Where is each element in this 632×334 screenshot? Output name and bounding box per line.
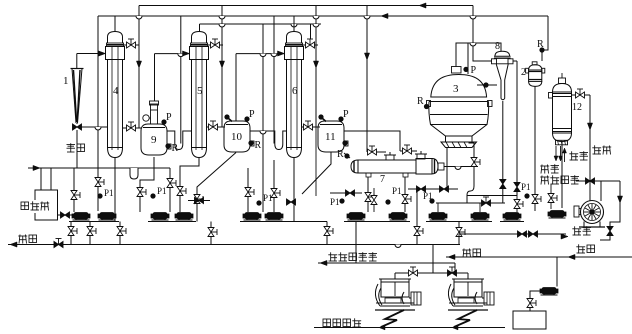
drop from cluster 4 to discharge line — [416, 189, 418, 245]
valve on vapor line into exchanger 7 — [367, 151, 386, 153]
svg-text:3: 3 — [453, 83, 459, 95]
text 进水 (bottom) — [574, 226, 576, 235]
vent valve at top of column 4 — [124, 44, 140, 46]
valve above seal tank — [529, 296, 531, 311]
valve from tank to pump 1 — [58, 214, 73, 216]
svg-text:R: R — [255, 140, 262, 151]
vapor loop from header 2 into column 6 — [273, 16, 275, 144]
pump 5A — [431, 213, 445, 220]
riser from units to product line — [432, 245, 434, 274]
valve on liquor line into exchanger 7 — [400, 150, 417, 152]
branch into vessel 3 dome — [467, 43, 469, 74]
steam feed line into column 4 — [77, 53, 105, 55]
vapor riser from column 5 to top header — [221, 6, 223, 128]
svg-text:2: 2 — [521, 67, 526, 78]
gauge P1 of cluster 6 — [525, 194, 529, 198]
pump 3A — [245, 213, 259, 220]
valve on unit B line — [448, 270, 453, 276]
svg-text:10: 10 — [231, 131, 243, 143]
product pump unit A volute — [375, 284, 380, 306]
product line with dark valves under vessel 3 — [408, 188, 458, 190]
svg-text:P1: P1 — [104, 188, 114, 198]
gauge P1 of cluster 1 — [98, 194, 102, 198]
vacuum pump suction flange — [574, 206, 579, 217]
cluster 6 baseline — [500, 221, 524, 223]
valve from separator 11 drain — [330, 192, 362, 194]
cyclone outlet to riser — [513, 60, 517, 62]
top vapor header line 2 — [98, 15, 548, 17]
preheater 2 side lugs — [526, 68, 529, 73]
crossover valve cluster 2 — [188, 200, 210, 202]
diagonal drain from separator 11 — [302, 153, 331, 195]
drop from cluster 5 to discharge line — [458, 222, 460, 245]
steam line below valve — [76, 130, 78, 168]
rotameter top riser — [76, 54, 78, 69]
exchanger 7 top nozzle 2 — [417, 154, 425, 159]
vapor riser from column 4 to top header — [138, 6, 140, 129]
vacuum pump base — [583, 222, 585, 228]
cyclone tail line with valve — [502, 101, 504, 203]
steam branch line to column 4 — [81, 126, 108, 128]
vent valve at top of column 5 — [208, 44, 224, 46]
seal pump riser to product line — [556, 257, 558, 287]
drop from header 3 to pump cluster 3 — [262, 24, 264, 212]
top vapor header line 1 — [139, 5, 473, 7]
svg-text:P1: P1 — [263, 193, 273, 203]
top vapor header line 3 — [200, 23, 322, 25]
svg-text:5: 5 — [197, 85, 203, 97]
svg-text:P: P — [166, 112, 172, 123]
condensate outlet arrows under condenser 12 — [555, 146, 557, 158]
pressure tap P on vessel 10 — [245, 117, 249, 121]
loop seal on cleaning line — [130, 168, 138, 179]
suction riser of unit B — [467, 273, 469, 279]
cyclone overhead line into concentrator 3 — [456, 43, 501, 67]
exchanger 7 legs — [366, 173, 371, 177]
product pump unit B volute — [448, 284, 453, 306]
pump 1B — [100, 213, 114, 220]
gauge P1a of cluster 4 — [340, 199, 344, 203]
svg-text:P1: P1 — [392, 186, 402, 196]
cooling water inlet arrow — [564, 150, 566, 162]
pump 2B — [177, 213, 191, 220]
cyclone side lugs — [492, 59, 497, 64]
svg-text:P1: P1 — [521, 182, 531, 192]
preheater 2 drain — [534, 86, 536, 211]
text 进水 (top) — [571, 151, 573, 160]
vacuum pump (water-ring) — [581, 201, 604, 224]
heater column 5 shell — [192, 32, 207, 44]
drop from cluster 2 to discharge line — [210, 222, 212, 245]
heater column 6 shell — [287, 32, 302, 44]
text 排料 — [18, 235, 27, 237]
pump 6B (condensate) — [550, 211, 564, 218]
top nozzle on vessel 9 — [151, 104, 158, 124]
pump cluster baseline — [426, 221, 492, 223]
liquor transfer with loop seal between 9 and column 5 — [167, 131, 192, 150]
product pump unit B motor — [484, 292, 494, 305]
line from column 4 to separator 9 with valve — [123, 127, 142, 129]
condensate line to pool 至冷凝水池 — [318, 262, 455, 264]
discharge zigzag arrow of unit B — [454, 310, 477, 327]
text 清洗液 — [19, 200, 53, 213]
vapor line from top header into cyclone 8 — [473, 6, 492, 62]
product pump unit A tank — [381, 279, 409, 297]
svg-text:P: P — [471, 65, 477, 76]
pressure tap P on vessel 11 — [339, 117, 343, 121]
vessel 3 right nozzle — [488, 101, 493, 107]
vacuum pump discharge loop — [600, 181, 620, 240]
product pump unit B tank — [454, 279, 482, 297]
line from header into preheater 2 — [542, 16, 548, 61]
valve on discharge line — [54, 242, 59, 248]
column 5 bottom outlet riser — [180, 158, 199, 213]
pump 1A — [74, 213, 88, 220]
liquor transfer line from 11 to exchanger 7 — [344, 131, 400, 151]
concentrator vessel 3 shell — [431, 75, 487, 98]
svg-text:P: P — [343, 109, 349, 120]
level tap R on vessel 11 — [344, 141, 348, 146]
svg-text:P: P — [249, 109, 255, 120]
condensate drain line to water line — [576, 180, 620, 182]
pump cluster baseline — [344, 221, 410, 223]
steam rotameter 1 (tapered tube) — [71, 68, 84, 70]
preheater 2 shell — [529, 65, 542, 70]
gauge P1 of cluster 2 — [151, 194, 155, 198]
riser into pump 6A — [516, 196, 518, 213]
condenser 12 side lug — [549, 93, 553, 99]
suction risers cluster 3 — [247, 168, 249, 212]
water line with twin valves — [459, 233, 566, 235]
feed arrow into column 5 — [183, 51, 190, 56]
preheater 2 top nozzle — [532, 62, 537, 65]
svg-text:1: 1 — [63, 75, 69, 87]
column 6 dome riser to header 2 — [293, 16, 295, 32]
main discharge line 排料 — [8, 244, 460, 246]
text 进料 — [578, 244, 580, 253]
pump cluster baseline — [148, 221, 196, 223]
svg-text:R: R — [337, 149, 344, 160]
vapor riser from column 6 to top header — [315, 6, 317, 128]
svg-text:P1: P1 — [423, 191, 433, 201]
condenser 12 shell — [553, 84, 572, 93]
level tap R on vessel 10 — [250, 141, 254, 146]
top fitting on vessel 10 — [228, 118, 232, 122]
text 真空 — [594, 145, 596, 154]
vessel 3 top cap — [452, 67, 462, 74]
suction line to pump 6A — [467, 195, 517, 197]
separator vessel 10 shell — [224, 121, 250, 152]
text 排水 — [540, 165, 549, 167]
line from column 5 to separator 10 with valve — [207, 126, 226, 128]
product pump unit A motor — [411, 292, 421, 305]
vacuum valve beside condenser 12 — [572, 94, 591, 96]
cyclone cone and dip tube — [496, 64, 501, 80]
gauge P1b of cluster 4 — [386, 200, 390, 204]
column 5 dome riser to header 3 — [199, 24, 201, 32]
exchanger 7 top nozzle 1 — [386, 155, 394, 160]
vapor line from top header down to heat exchanger 7 — [366, 6, 368, 153]
condenser 12 bottom outlet box — [556, 140, 568, 145]
liquor transfer with loop seal between 10 and column 6 — [250, 131, 287, 150]
condenser 12 drain line — [561, 142, 563, 209]
pump 5B — [473, 213, 487, 220]
vapor line from separator 9 nozzle up to column 5 feed — [154, 54, 156, 101]
heat exchanger 7 shell — [358, 160, 416, 173]
svg-text:11: 11 — [325, 131, 336, 143]
suction risers cluster 2 — [169, 168, 171, 212]
long vertical x=316 to cluster 4 zone — [315, 127, 317, 196]
discharge zigzag arrow of unit A — [381, 310, 404, 327]
vent valve at top of column 6 — [303, 44, 319, 46]
valve on condensate drop x=98 — [95, 178, 101, 183]
svg-text:6: 6 — [292, 85, 298, 97]
transfer line into column 6 — [236, 53, 284, 55]
heater column 4 shell — [108, 32, 123, 44]
line from column 6 to separator 11 with valve — [302, 126, 321, 128]
drops from cluster 1 to discharge line — [70, 222, 72, 245]
separator vessel 11 shell — [318, 121, 344, 152]
vapor line from vessel 3 to cyclone tail zone — [477, 84, 497, 86]
vessel 3 left drain — [446, 148, 448, 190]
text 包装入库 — [323, 319, 331, 327]
gauge on vessel 9 nozzle — [143, 115, 149, 121]
svg-text:P1: P1 — [330, 197, 340, 207]
exchanger 7 outlet line to riser — [444, 166, 478, 168]
top fitting on vessel 11 — [322, 118, 326, 122]
column 6 bottom outlet — [293, 158, 295, 222]
line between pump units — [395, 272, 468, 274]
svg-text:R: R — [417, 96, 424, 107]
vapor loop from header 2 into column 5 — [180, 16, 182, 144]
pressure tap P on vessel 3 — [464, 67, 468, 71]
pump 6A — [505, 213, 519, 220]
vacuum pump discharge riser — [600, 181, 602, 201]
condensate riser with valve near pump — [550, 184, 552, 209]
separator vessel 9 shell — [141, 124, 167, 155]
vapor line from separator 10 up to column 6 feed — [235, 54, 237, 121]
suction risers cluster 1 — [73, 168, 75, 212]
condensate header drop at x=98 — [97, 16, 99, 211]
pump 3B — [267, 213, 281, 220]
pump cluster baseline — [240, 221, 286, 223]
drain riser to condensate pool — [355, 222, 357, 264]
drop from cluster 3 to discharge line — [326, 222, 328, 245]
steam valve below rotameter — [73, 124, 78, 130]
pressure tap P on vessel 9 — [162, 120, 166, 124]
svg-text:4: 4 — [113, 85, 119, 97]
gauge P1 of cluster 3 — [257, 201, 261, 205]
diagonal drain from separator 10 — [197, 153, 236, 222]
product discharge line 出料 — [446, 256, 632, 258]
svg-text:9: 9 — [151, 134, 157, 146]
svg-text:P1: P1 — [157, 186, 167, 196]
valve on unit A line — [409, 270, 414, 276]
svg-text:8: 8 — [495, 41, 500, 52]
text 出料 — [462, 249, 471, 251]
svg-text:12: 12 — [572, 102, 582, 113]
svg-text:7: 7 — [380, 174, 385, 185]
column 4 bottom outlet — [114, 158, 116, 222]
pump 4A — [349, 213, 363, 220]
seal pump — [530, 291, 541, 296]
level tap R on vessel 9 — [167, 144, 171, 149]
text 至冷凝水池 — [330, 252, 332, 261]
crossover line of cluster 5 — [436, 202, 505, 204]
feed arrow into column 4 — [99, 51, 106, 56]
pump 2A — [153, 213, 167, 220]
steam text 蒸汽 — [67, 144, 76, 146]
long riser from cyclone outlet — [516, 61, 518, 196]
condenser 12 top nozzle — [559, 78, 566, 84]
feed arrow into column 6 — [278, 51, 285, 56]
transfer line into column 5 — [155, 53, 190, 55]
column 6 vent riser to header 3 — [310, 24, 312, 39]
pump cluster baseline — [69, 221, 119, 223]
vessel 3 right drain with offset jog — [469, 143, 475, 186]
cyclone separator 8 — [495, 51, 510, 56]
svg-text:R: R — [537, 39, 544, 50]
packaging line 包装入库 — [314, 327, 505, 329]
inlet arrow to cleaning liquid line — [28, 167, 170, 169]
text 排冷凝水 — [540, 176, 549, 178]
pump 4B — [391, 213, 405, 220]
tap R above preheater 2 — [540, 48, 544, 52]
exchanger 7 bottom outlet risers — [367, 177, 369, 212]
seal tank — [513, 311, 546, 329]
cleaning liquid tank — [35, 190, 58, 220]
column 4 dome riser to header 2 — [114, 16, 116, 32]
gauge P1 of cluster 5 — [430, 199, 434, 203]
suction riser of unit A — [394, 273, 396, 279]
vacuum line down to vacuum pump — [589, 95, 591, 200]
